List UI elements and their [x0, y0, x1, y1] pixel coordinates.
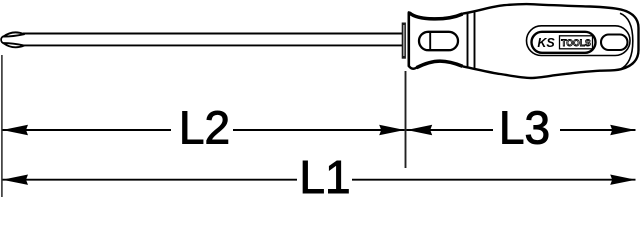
svg-text:TOOLS: TOOLS — [561, 38, 591, 49]
svg-text:L1: L1 — [299, 151, 350, 197]
svg-text:L2: L2 — [179, 102, 230, 154]
svg-text:L3: L3 — [499, 102, 550, 154]
svg-text:KS: KS — [537, 36, 555, 50]
